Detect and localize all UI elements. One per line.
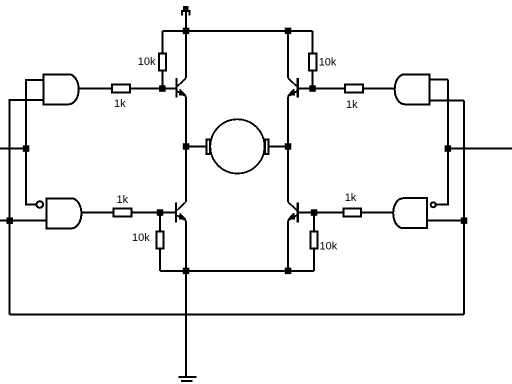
- AND gate U1 (top-left): [44, 74, 79, 104]
- svg-text:1k: 1k: [346, 99, 358, 111]
- node Q2 base / R2: [309, 85, 316, 92]
- resistor R4 10k (bottom-right): [310, 232, 317, 249]
- node motor left: [183, 143, 190, 150]
- wire Q3 emitter down to inner rail: [185, 221, 187, 271]
- node power rail / Q2 collector: [285, 28, 292, 34]
- wire motor left lead: [186, 145, 206, 147]
- wire motor right lead: [268, 145, 288, 147]
- node Q1 base / R1: [159, 85, 166, 92]
- wire Q4 collector up to motor node: [287, 146, 289, 202]
- node Q3 base / R3: [157, 209, 164, 216]
- svg-text:10k: 10k: [320, 240, 338, 252]
- wire R6 to Q3 base: [133, 212, 176, 214]
- wire left input line A: [0, 148, 26, 150]
- wire R5 to Q1 base: [131, 88, 177, 90]
- wire U2 output to R6: [81, 212, 112, 214]
- resistor R6 1k (bottom-left): [114, 209, 132, 217]
- wire Q4 emitter down to inner rail: [287, 221, 289, 271]
- ground symbol: [178, 377, 196, 381]
- resistor R8 1k (bottom-right): [343, 209, 361, 217]
- node power rail / Q1 collector: [183, 28, 190, 34]
- svg-text:1k: 1k: [114, 98, 126, 110]
- node inner rail right: [285, 268, 292, 275]
- power +V terminal: [181, 6, 190, 16]
- wire U3 input1 stub: [430, 79, 448, 81]
- node inner rail left / ground: [183, 268, 190, 275]
- wire R8 to Q4 base: [298, 212, 343, 214]
- inverter bubble on U2 input: [37, 201, 44, 208]
- AND gate U4 with inverted input (bottom-right, mirrored): [393, 198, 427, 228]
- wire rail right corner down: [312, 31, 314, 53]
- transistor Q2 (NPN top-right, mirrored): [288, 78, 298, 98]
- node right feedback junction: [461, 217, 468, 224]
- wire R3 bottom lead to inner rail: [159, 250, 161, 271]
- wire R4 bottom lead to inner rail: [313, 250, 315, 271]
- node input A junction: [23, 145, 30, 152]
- wire power stem: [185, 12, 187, 31]
- node output line junction: [445, 145, 452, 152]
- resistor R1 10k (top-left): [159, 54, 166, 71]
- wire riser C (U3 input2 down to feedback rail): [463, 101, 465, 315]
- wire Q2 collector up: [287, 31, 289, 78]
- wire Q4 base node down: [313, 213, 315, 231]
- AND gate U3 (top-right, mirrored): [395, 74, 430, 104]
- wire bottom feedback rail: [10, 314, 464, 316]
- wire right output line: [448, 148, 512, 150]
- svg-text:1k: 1k: [345, 192, 357, 204]
- inverter bubble on U4 input: [431, 202, 436, 207]
- wire R1 bottom lead: [161, 71, 163, 88]
- wire ground stem: [185, 271, 187, 377]
- motor M1 right brush: [265, 140, 269, 154]
- transistor Q4 (NPN bottom-right, mirrored): [288, 202, 298, 222]
- resistor R5 1k (top-left): [112, 85, 130, 93]
- motor M1 left brush: [207, 140, 211, 154]
- wire U3 input2 stub: [430, 100, 464, 102]
- wire U4 input2 to riser C: [427, 220, 464, 222]
- svg-text:1k: 1k: [117, 194, 129, 206]
- svg-text:10k: 10k: [319, 56, 337, 68]
- wire left input line B: [0, 220, 46, 222]
- node input B junction: [7, 217, 14, 224]
- wire rail left corner down: [161, 31, 163, 53]
- resistor R2 10k (top-right): [309, 54, 316, 71]
- wire U4 output to R8: [362, 212, 393, 214]
- wire Q2 emitter down to motor node: [287, 97, 289, 147]
- wire R2 bottom lead: [312, 71, 314, 88]
- wire U1 output to R5: [79, 88, 111, 90]
- wire R7 to Q2 base: [298, 88, 344, 90]
- transistor Q3 (NPN bottom-left): [176, 202, 186, 222]
- resistor R3 10k (bottom-left): [156, 232, 163, 249]
- wire Q3 collector up to motor node: [185, 146, 187, 202]
- wire riser A (input A to gate U1 input1 and U2 bubble): [26, 80, 44, 205]
- motor M1 circle: [210, 119, 264, 173]
- wire riser B (input B up to gate U1 input2): [10, 100, 44, 314]
- wire U3 output to R7: [364, 88, 395, 90]
- node Q4 base / R4: [311, 209, 318, 216]
- svg-text:10k: 10k: [138, 56, 156, 68]
- svg-text:10k: 10k: [132, 232, 150, 244]
- node motor right: [285, 143, 292, 150]
- wire Q1 emitter down to motor node: [185, 97, 187, 147]
- transistor Q1 (NPN top-left): [176, 78, 186, 98]
- wire Q3 base node down: [159, 213, 161, 231]
- wire Q1 collector up: [185, 31, 187, 78]
- wire inner emitter rail: [160, 270, 314, 272]
- AND gate U2 with inverted input (bottom-left): [46, 198, 81, 228]
- resistor R7 1k (top-right): [345, 85, 363, 93]
- wire riser D (U3 input1 down to output line and U4 bubble): [436, 80, 448, 205]
- wire top power rail: [162, 30, 312, 32]
